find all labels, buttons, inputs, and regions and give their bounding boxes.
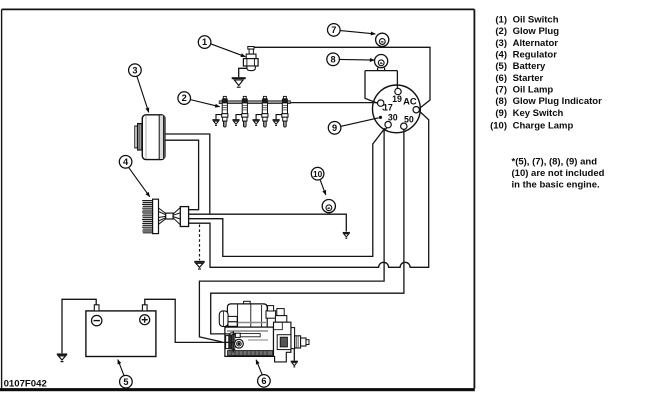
svg-text:Charge Lamp: Charge Lamp: [513, 120, 574, 131]
svg-text:9: 9: [332, 123, 337, 133]
svg-text:(5): (5): [495, 61, 507, 72]
svg-text:AC: AC: [403, 95, 417, 106]
svg-text:*(5), (7), (8), (9) and: *(5), (7), (8), (9) and: [512, 157, 598, 168]
svg-text:(1): (1): [495, 14, 507, 25]
svg-text:(4): (4): [495, 50, 507, 61]
svg-text:5: 5: [123, 377, 128, 387]
svg-text:10: 10: [313, 169, 323, 179]
svg-text:6: 6: [261, 376, 266, 386]
svg-text:Glow Plug Indicator: Glow Plug Indicator: [513, 96, 603, 107]
svg-text:19: 19: [392, 94, 402, 104]
svg-text:(7): (7): [495, 85, 507, 96]
svg-text:4: 4: [123, 157, 129, 167]
svg-text:3: 3: [132, 65, 137, 75]
svg-text:30: 30: [388, 112, 398, 122]
svg-text:Oil Switch: Oil Switch: [513, 14, 559, 25]
svg-text:50: 50: [404, 115, 414, 125]
svg-text:Regulator: Regulator: [513, 50, 558, 61]
svg-text:(10) are not included: (10) are not included: [512, 168, 605, 179]
svg-text:(9): (9): [495, 108, 507, 119]
svg-text:1: 1: [202, 37, 207, 47]
svg-text:2: 2: [182, 93, 187, 103]
svg-text:(2): (2): [495, 26, 507, 37]
svg-text:Oil Lamp: Oil Lamp: [513, 85, 554, 96]
svg-text:17: 17: [383, 102, 393, 112]
svg-text:(10): (10): [490, 120, 507, 131]
svg-text:Key Switch: Key Switch: [513, 108, 564, 119]
svg-text:(3): (3): [495, 38, 507, 49]
svg-text:0107F042: 0107F042: [4, 378, 47, 389]
svg-text:in the basic engine.: in the basic engine.: [512, 180, 600, 191]
svg-text:Battery: Battery: [513, 61, 546, 72]
svg-text:8: 8: [331, 54, 336, 64]
svg-text:Starter: Starter: [513, 73, 544, 84]
svg-text:7: 7: [331, 25, 336, 35]
svg-text:(8): (8): [495, 96, 507, 107]
svg-text:(6): (6): [495, 73, 507, 84]
svg-text:Glow Plug: Glow Plug: [513, 26, 560, 37]
svg-text:Alternator: Alternator: [513, 38, 559, 49]
